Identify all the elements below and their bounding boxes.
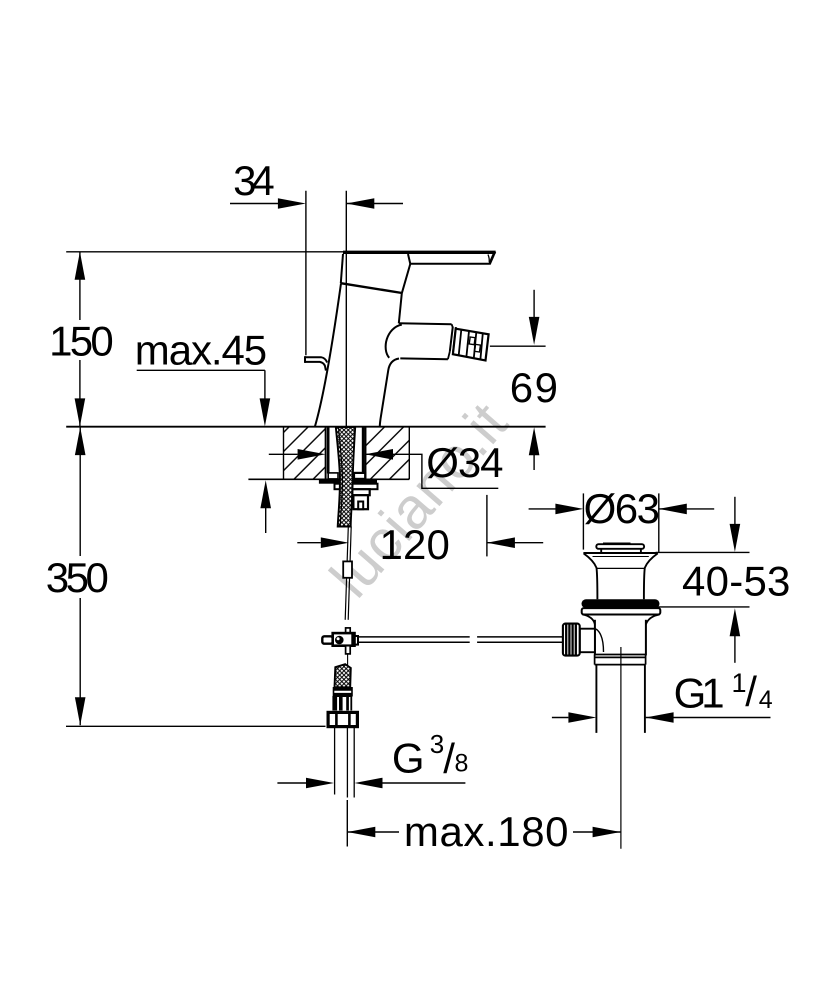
mounting nut body [353, 495, 368, 509]
dim 350 bottom reference line [66, 725, 326, 727]
arrowhead 350 top [75, 427, 86, 455]
svg-text:40-53: 40-53 [682, 558, 790, 605]
clamp right bar [351, 633, 354, 646]
drain body right wall [645, 620, 647, 656]
arrowhead g38 right [355, 778, 383, 789]
arrowhead g114 left [568, 712, 596, 723]
linkage horizontal rod left segment [323, 636, 470, 638]
svg-text:max.45: max.45 [135, 327, 267, 374]
body right edge [380, 359, 399, 427]
shank foot left [328, 473, 338, 479]
arrowhead 150 bottom [75, 398, 86, 426]
dim 120 line left [297, 542, 321, 544]
mounting under-flange [335, 484, 378, 490]
arrowhead o63 right [659, 504, 687, 515]
dim o63 right extension line [658, 493, 660, 552]
horn bottom line [400, 357, 448, 360]
mounting nut notch [358, 502, 363, 510]
mounting nut flange [352, 489, 369, 495]
drain bell joint line [597, 567, 645, 569]
dim 40-53 lower stem [734, 636, 736, 663]
drain bell left side [584, 553, 598, 599]
pop-up pull rod upper [345, 527, 348, 620]
drain pop-up cap dome line [603, 542, 631, 544]
svg-text:Ø63: Ø63 [584, 485, 660, 532]
faucet lever top thick line [343, 251, 496, 254]
arrowhead 150 top [75, 252, 86, 280]
deck hatch left edge [283, 427, 285, 480]
deck bottom line [248, 478, 409, 480]
dim g114 line right [646, 717, 771, 719]
dim 69 lower stem [533, 455, 535, 470]
dim 40-53 upper reference line [656, 551, 750, 553]
lever rear corner bottom [305, 362, 326, 371]
svg-text:34: 34 [233, 157, 275, 204]
svg-text:3: 3 [430, 729, 444, 759]
supply tube mid line [346, 727, 348, 798]
drain neck right [646, 615, 660, 625]
horn neck arc [386, 325, 402, 358]
arrowhead o34 right [365, 449, 393, 460]
pull rod coupling [343, 561, 352, 577]
dim 350 line lower [79, 598, 81, 725]
drain O-ring [582, 599, 660, 608]
arrowhead g114 right [646, 712, 674, 723]
max45 lower arrow stem [265, 508, 267, 533]
drain lip [582, 608, 661, 614]
supply hose braid lower [335, 664, 351, 687]
drain pop-up cap plate [596, 544, 644, 549]
svg-text:Ø34: Ø34 [426, 439, 503, 486]
supply tube wall right [353, 727, 355, 798]
dim max180 line left [347, 831, 399, 833]
dim o63 line right [659, 508, 714, 510]
lever tip inner edge [488, 255, 489, 263]
lever skirt bottom [341, 283, 402, 293]
supply tube wall left [334, 727, 336, 795]
dim 34 line left [230, 203, 279, 205]
nozzle rib b [466, 331, 469, 357]
body left edge [315, 283, 341, 426]
drain knob ribbed [563, 624, 580, 656]
svg-text:120: 120 [380, 521, 450, 568]
lever rear corner left edge [304, 356, 306, 363]
drain bell top line [583, 552, 658, 554]
svg-text:/: / [745, 668, 757, 715]
max45 leader vertical [264, 370, 266, 398]
lever rear corner top [305, 357, 327, 362]
nozzle inner detail a [469, 337, 475, 345]
arrowhead max180 right [593, 827, 621, 838]
dim max180 left extension line [346, 800, 348, 847]
clamp screw [335, 636, 344, 645]
nozzle rib a [459, 330, 462, 356]
dim 34 left extension line [305, 191, 307, 355]
shank foot right [354, 473, 365, 479]
clamp right tab [355, 636, 358, 645]
arrowhead 120 right [487, 537, 515, 548]
deck hatch right edge [408, 427, 410, 480]
max45 leader underline [137, 369, 265, 371]
deck hatch left block [284, 427, 326, 479]
dim o63 line left [529, 508, 556, 510]
rod thin tail [347, 654, 349, 666]
dim g114 line left [552, 717, 569, 719]
svg-text:4: 4 [759, 686, 773, 714]
linkage rod left end cap [322, 636, 332, 643]
dim 34 line right tail [346, 203, 403, 205]
drain pop-up cap neck [601, 549, 641, 553]
threaded shank right wall [362, 427, 365, 473]
drain center line [620, 647, 622, 849]
svg-text:8: 8 [455, 749, 469, 777]
dim 120 right extension line [486, 495, 488, 557]
lever front notch [408, 254, 410, 264]
drain tail pipe left [595, 665, 597, 733]
lever tip [489, 252, 495, 265]
arrowhead 120 left [321, 537, 349, 548]
deck hatch right block [365, 427, 409, 479]
dim o63 left extension line [582, 493, 584, 549]
arrowhead o34 left [298, 449, 326, 460]
dim 69 upper stem [533, 290, 535, 317]
dim max180 line right [573, 831, 621, 833]
clamp pin upper [346, 628, 351, 633]
dim 150 line upper [79, 252, 81, 320]
hose inner edge line [339, 427, 343, 527]
arrowhead 40-53 upper [730, 524, 741, 552]
drain tail pipe right [644, 665, 646, 733]
arrowhead g38 left [306, 778, 334, 789]
dim 350 line upper [79, 427, 81, 556]
body front edge [399, 264, 411, 323]
arrowhead 34 left [278, 198, 306, 209]
nozzle inner detail b [475, 344, 481, 352]
hose ferrule [334, 688, 353, 696]
arrowhead 40-53 lower [730, 608, 741, 636]
linkage clamp block [333, 633, 355, 646]
dim o34 line left tail [269, 453, 298, 455]
nozzle rib d [480, 333, 482, 359]
nozzle ring line b [453, 327, 456, 352]
arrowhead max45 lower [260, 480, 271, 508]
deck hole right edge [365, 427, 367, 480]
deck hole left edge [325, 427, 327, 480]
svg-text:69: 69 [510, 364, 558, 411]
drain bottom ring [595, 655, 646, 665]
svg-text:G: G [392, 734, 425, 781]
arrowhead o63 left [555, 504, 583, 515]
dim g38 line right [383, 782, 466, 784]
linkage horizontal rod right segment [477, 636, 563, 638]
supply hose braid upper [336, 427, 355, 527]
dim 69 nozzle reference line [490, 345, 546, 347]
deck top line [66, 426, 545, 428]
mounting washer [319, 479, 377, 484]
nozzle outline [453, 329, 489, 361]
nozzle rib c [474, 332, 477, 358]
lever underside [410, 263, 490, 265]
drain knob connector [580, 629, 595, 653]
hose hex nut [328, 712, 357, 726]
horn top line [399, 322, 452, 325]
nozzle ring line a [450, 327, 453, 352]
svg-text:max.180: max.180 [404, 808, 569, 855]
clamp pin lower [346, 646, 351, 654]
lever left edge [341, 254, 343, 283]
arrowhead 350 bottom [75, 697, 86, 725]
arrowhead max45 [260, 398, 271, 426]
dim 40-53 upper stem [734, 497, 736, 524]
lever top reference line [66, 251, 344, 253]
svg-text:/: / [443, 735, 455, 782]
dim 34 right extension line [345, 191, 347, 427]
arrowhead 69 upper [529, 317, 540, 345]
dim 150 line lower [79, 360, 81, 427]
dim 40-53 lower reference line [657, 606, 750, 608]
arrowhead 69 lower [529, 427, 540, 455]
hose ribbed collar [332, 696, 352, 711]
dim o34 leader [365, 454, 498, 488]
drain bell right side [644, 553, 658, 599]
horn right step top [452, 324, 453, 327]
svg-text:150: 150 [49, 317, 114, 364]
svg-text:G1: G1 [674, 670, 725, 717]
dim 120 line right [487, 542, 543, 544]
threaded shank left wall [327, 427, 330, 474]
dim g38 line left [277, 782, 306, 784]
arrowhead 34 right [346, 198, 374, 209]
drain body inner arc [596, 629, 604, 652]
drain neck left [583, 615, 595, 625]
arrowhead max180 left [347, 827, 375, 838]
drain body left wall [594, 620, 596, 656]
drain bell inner top line [593, 556, 649, 558]
horn right step bottom [448, 352, 450, 360]
svg-text:350: 350 [46, 554, 109, 601]
